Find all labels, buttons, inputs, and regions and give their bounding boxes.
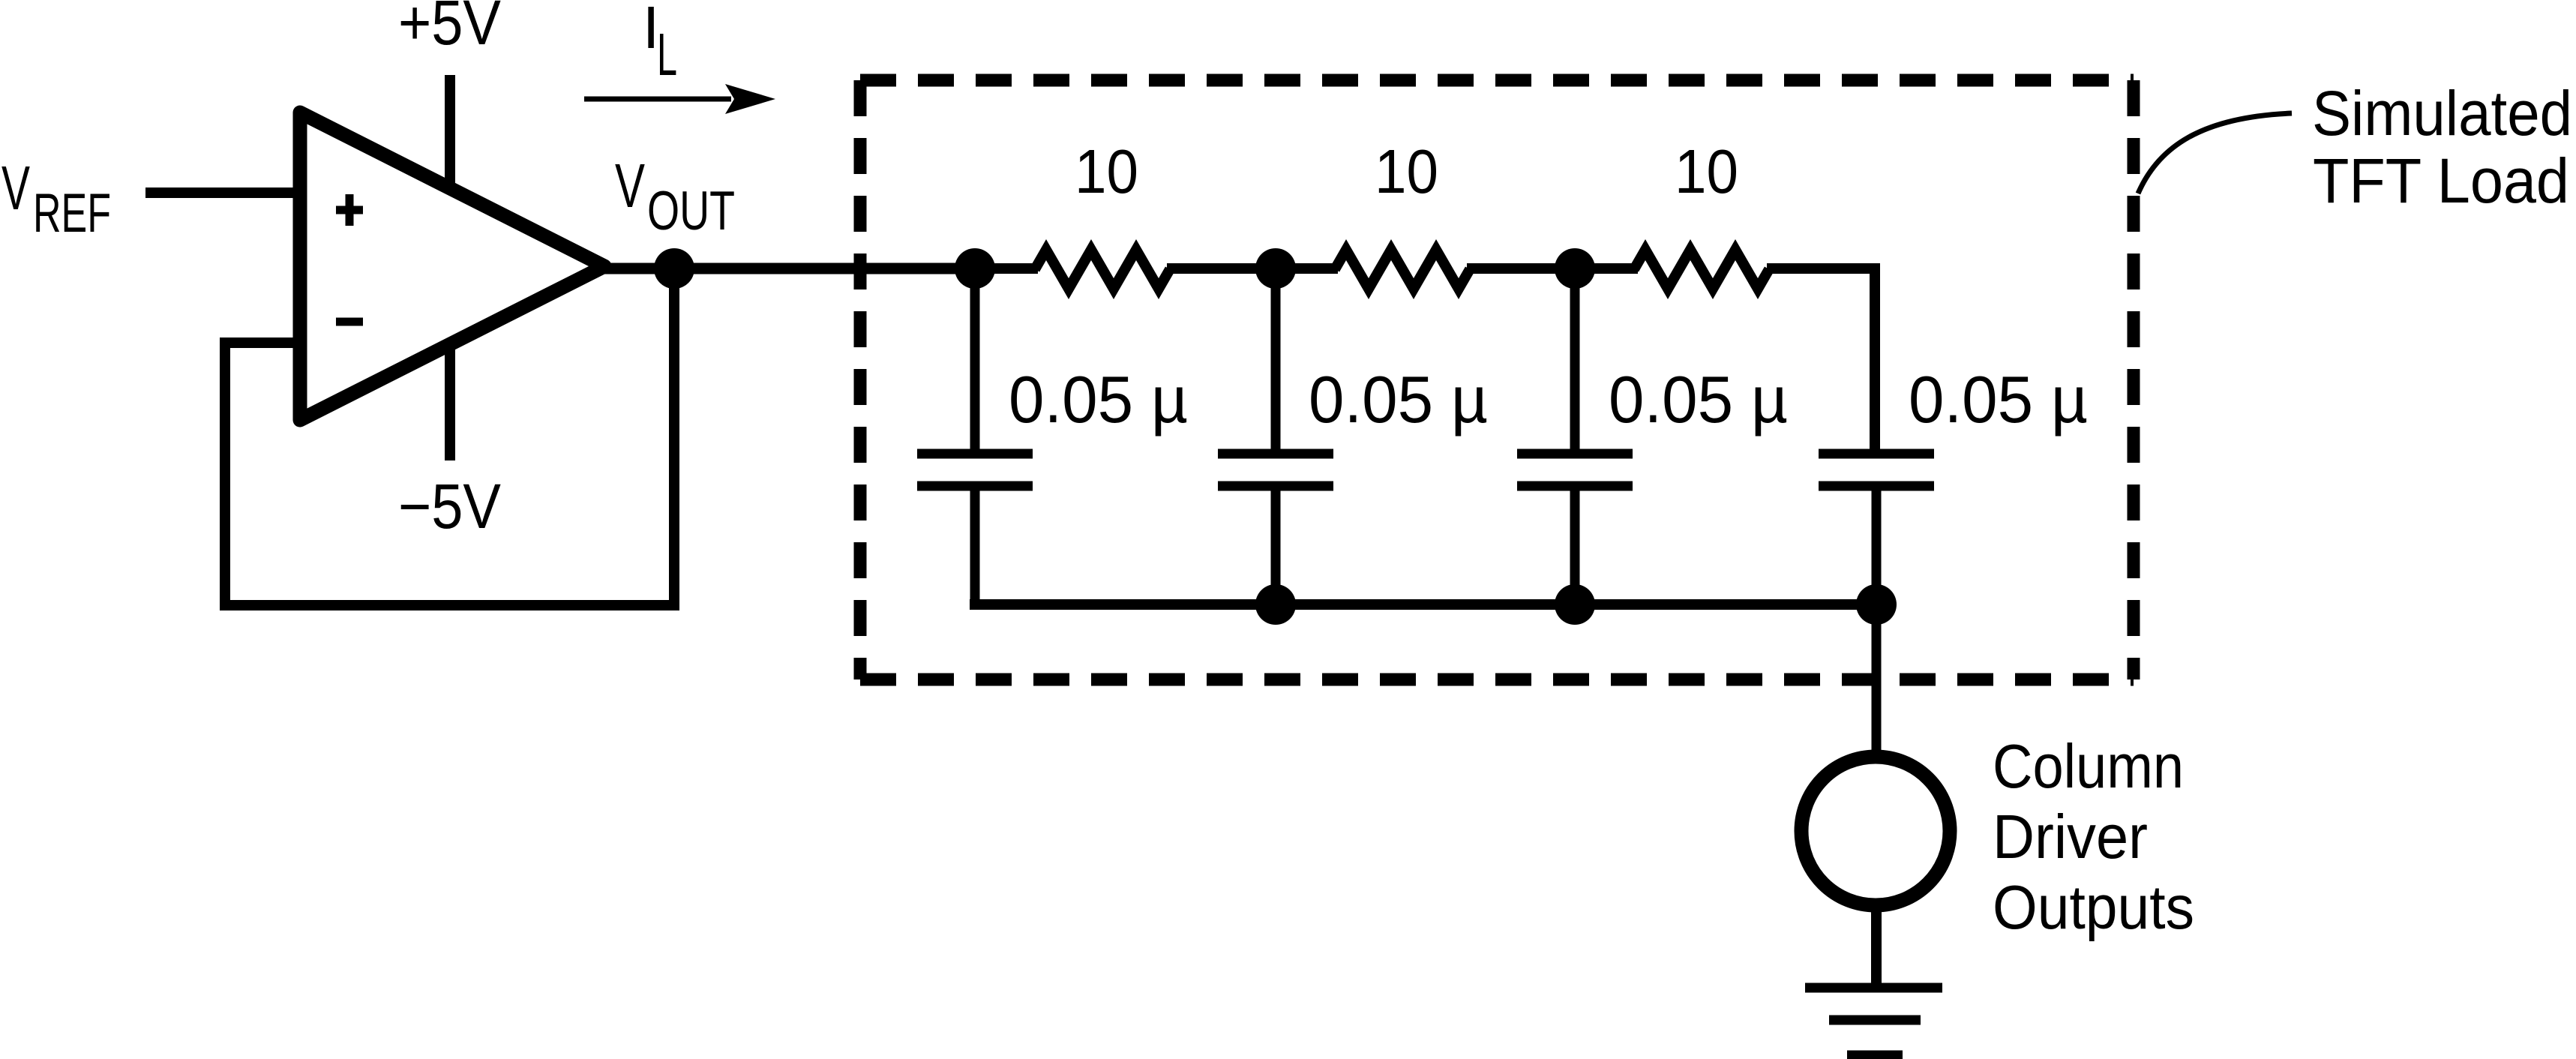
resistor R3 10 — [1634, 250, 1769, 289]
ground — [1805, 988, 1942, 1055]
svg-text:0.05 µ: 0.05 µ — [1009, 362, 1188, 436]
wire R1 to node B — [1167, 263, 1338, 274]
label VOUT — [615, 151, 735, 241]
label Simulated TFT Load — [2312, 78, 2572, 216]
wire source to ground — [1871, 904, 1882, 988]
op-amp inverting input - — [336, 318, 363, 326]
label VREF — [1, 153, 111, 244]
svg-text:10: 10 — [1375, 136, 1438, 206]
svg-text:0.05 µ: 0.05 µ — [1909, 362, 2088, 436]
dashed box simulated TFT load — [860, 80, 2134, 679]
svg-text:Column: Column — [1993, 731, 2184, 801]
node A (ladder input) — [955, 248, 995, 289]
capacitor C4 0.05u — [1819, 454, 1934, 609]
node C — [1555, 248, 1595, 289]
wire -5V power stub — [445, 343, 455, 460]
current arrow IL — [584, 84, 775, 114]
label Column Driver Outputs — [1993, 731, 2194, 942]
svg-text:REF: REF — [33, 183, 111, 244]
node F (bottom-right corner) — [1856, 584, 1897, 625]
resistor R2 10 — [1335, 250, 1470, 289]
wire VREF input — [145, 187, 300, 198]
resistor R1 10 — [1035, 250, 1170, 289]
wire R3 to top-right corner — [1767, 268, 1875, 451]
svg-text:Driver: Driver — [1993, 802, 2148, 871]
wire to column driver source — [1872, 604, 1882, 759]
wire node A to R1 — [975, 263, 1038, 274]
node VOUT junction — [654, 248, 694, 289]
svg-text:+5V: +5V — [398, 0, 501, 58]
capacitor C2 0.05u — [1218, 268, 1333, 609]
svg-text:10: 10 — [1075, 136, 1138, 206]
callout curve to Simulated TFT Load — [2138, 113, 2292, 193]
svg-text:TFT Load: TFT Load — [2313, 145, 2569, 216]
svg-text:Simulated: Simulated — [2312, 78, 2572, 148]
capacitor C1 0.05u — [917, 268, 1033, 609]
label IL — [643, 0, 677, 88]
node D (bottom, under C2) — [1255, 584, 1296, 625]
op-amp non-inverting input + — [336, 194, 363, 226]
wire feedback loop — [225, 268, 674, 605]
svg-text:V: V — [615, 151, 645, 220]
wire R2 to node C — [1467, 263, 1638, 274]
node E (bottom, under C3) — [1555, 584, 1595, 625]
node B — [1255, 248, 1296, 289]
svg-text:10: 10 — [1675, 136, 1738, 206]
capacitor C3 0.05u — [1517, 268, 1633, 609]
source circle: column driver outputs — [1801, 757, 1950, 905]
wire VOUT output — [604, 263, 980, 274]
svg-text:OUT: OUT — [647, 181, 735, 241]
wire +5V power stub — [445, 75, 455, 185]
svg-text:−5V: −5V — [398, 471, 501, 541]
op-amp U1 — [300, 112, 604, 420]
bottom rail of ladder — [970, 599, 1876, 610]
svg-text:L: L — [657, 21, 677, 88]
svg-text:0.05 µ: 0.05 µ — [1609, 362, 1788, 436]
svg-text:V: V — [1, 153, 30, 223]
svg-text:0.05 µ: 0.05 µ — [1309, 362, 1488, 436]
svg-text:Outputs: Outputs — [1993, 872, 2194, 942]
